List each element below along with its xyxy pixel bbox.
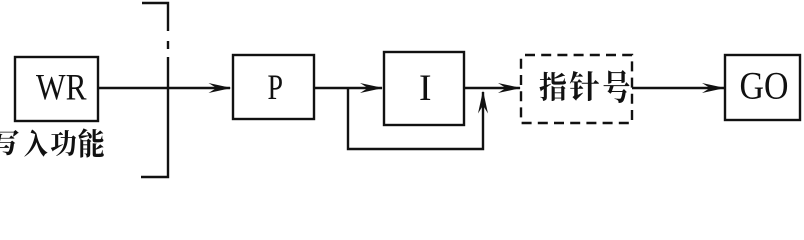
arrowhead into P [209, 83, 232, 93]
wire pointer box to GO [632, 87, 724, 89]
label char 号 [604, 70, 630, 103]
caption char 能 [78, 128, 103, 157]
block GO [725, 55, 800, 120]
feedback wire down from junction [348, 88, 483, 149]
dashed block pointer number [521, 55, 632, 123]
svg-text:GO: GO [740, 65, 789, 108]
caption char 写 [0, 130, 19, 155]
label char 指 [539, 72, 566, 101]
caption char 入 [24, 130, 47, 157]
svg-text:P: P [268, 67, 284, 107]
wire I to pointer box [464, 87, 520, 89]
break dash [167, 41, 169, 49]
wire WR to P [98, 87, 230, 89]
arrowhead into GO [702, 83, 725, 93]
arrowhead into pointer box [498, 83, 521, 93]
svg-text:WR: WR [36, 68, 87, 109]
arrowhead up into wire [478, 91, 488, 114]
label char 针 [570, 71, 599, 101]
block I [384, 52, 464, 125]
svg-text:I: I [419, 68, 432, 109]
block P [233, 55, 314, 119]
arrowhead into I [360, 83, 383, 93]
break bracket lower vertical and bottom tick [141, 57, 168, 177]
caption char 功 [51, 130, 76, 156]
break bracket top tick [142, 3, 168, 31]
block WR [15, 57, 98, 121]
wire P to I [314, 87, 382, 89]
